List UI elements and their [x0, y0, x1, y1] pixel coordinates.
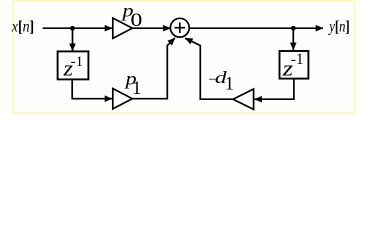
- wire: branch down to delay Z1: [72, 28, 74, 51]
- gain p1 (triangle amplifier): [113, 89, 133, 109]
- gain -d1 (triangle amplifier, pointing left): [233, 89, 254, 109]
- gain p0 (triangle amplifier): [113, 18, 133, 38]
- wire: gain d1 output up into adder: [185, 38, 233, 99]
- wire: adder output to y[n]: [189, 27, 323, 29]
- wire: gain p1 output up into adder: [132, 38, 175, 99]
- svg-text:x[n]: x[n]: [11, 19, 34, 36]
- delay z^-1 (left): [58, 51, 89, 81]
- wire: delay Z1 out, down then right to gain p1: [72, 79, 112, 99]
- delay z^-1 (right): [280, 51, 309, 81]
- svg-text:1: 1: [225, 75, 234, 95]
- wire: delay Z2 out, down then left to gain d1: [255, 79, 294, 99]
- svg-text:-1: -1: [291, 51, 304, 68]
- svg-text:-1: -1: [71, 54, 84, 70]
- wire: output branch down to delay Z2: [292, 28, 294, 50]
- wire: gain p0 output to adder: [132, 27, 170, 29]
- node: branch junction on output: [291, 26, 296, 31]
- node: branch junction on input: [70, 26, 75, 31]
- svg-text:y[n]: y[n]: [328, 19, 350, 36]
- wire: x[n] to gain p0 input: [43, 27, 112, 29]
- svg-text:0: 0: [131, 9, 143, 30]
- adder (summing junction): [170, 18, 189, 37]
- border frame (decorative): [13, 1, 355, 113]
- svg-text:1: 1: [132, 79, 141, 99]
